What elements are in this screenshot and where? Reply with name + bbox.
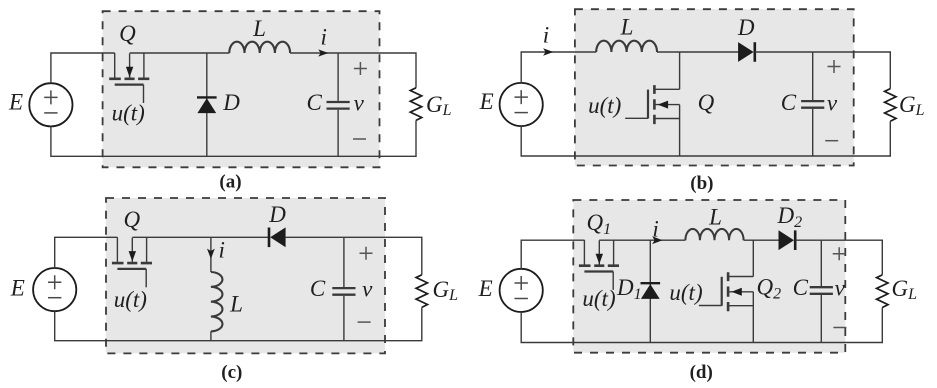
voltage source E (a) [29, 83, 72, 126]
wire D to C junction (c) [286, 236, 344, 238]
svg-text:L: L [229, 292, 243, 317]
wire L to D2 (d) [744, 239, 779, 241]
minus sign (a) [353, 138, 366, 140]
svg-text:v: v [827, 91, 838, 116]
wire D to C junction (b) [755, 51, 813, 53]
wire E top to L (b) [521, 52, 596, 83]
svg-text:u(t): u(t) [112, 101, 145, 126]
svg-text:C: C [307, 90, 323, 115]
resistor GL (b) [885, 89, 896, 122]
wire L to C junction (a) [290, 52, 338, 54]
minus sign (b) [825, 140, 838, 142]
diode D pointing left (c) [268, 228, 271, 248]
svg-text:E: E [10, 275, 25, 300]
dashed converter box (b) [575, 9, 854, 165]
svg-text:i: i [543, 23, 549, 48]
plus sign (c) [360, 247, 373, 260]
current arrow i (a) [318, 49, 328, 56]
svg-text:(d): (d) [690, 362, 713, 383]
svg-text:v: v [835, 276, 846, 301]
transistor Q mosfet (c) [112, 237, 152, 287]
current arrow i (b) [543, 48, 553, 55]
current arrow i wire (c) [210, 237, 212, 272]
svg-text:D: D [222, 90, 240, 115]
resistor GL (a) [410, 88, 421, 121]
plus sign (b) [828, 60, 841, 73]
svg-text:D: D [737, 15, 755, 40]
svg-text:C: C [310, 276, 326, 301]
transistor Q2 mosfet (d) [752, 240, 754, 276]
voltage source E (b) [500, 83, 543, 126]
diode D2 (d) [779, 230, 796, 250]
inductor L (a) [229, 42, 290, 53]
svg-text:C: C [781, 90, 797, 115]
capacitor C (c) [343, 237, 345, 340]
svg-text:L: L [620, 15, 634, 40]
transistor Q mosfet (b) [679, 52, 681, 89]
wire top rail Q to L (a) [130, 52, 230, 54]
capacitor C (b) [812, 52, 814, 156]
minus sign (d) [833, 327, 846, 329]
wire load bottom (b) [521, 121, 890, 156]
plus sign (a) [354, 62, 367, 75]
wire L to D (b) [657, 51, 739, 53]
wire E top to Q drain (c) [55, 237, 118, 268]
inductor L (b) [596, 41, 657, 52]
svg-text:D: D [268, 202, 286, 227]
diode D (a) [206, 53, 208, 156]
svg-text:u(t): u(t) [582, 286, 615, 311]
wire load bottom (c) [55, 307, 422, 340]
svg-text:L: L [252, 16, 266, 41]
wire load bottom (d) [521, 308, 882, 343]
svg-text:(b): (b) [690, 173, 713, 194]
capacitor C (a) [337, 53, 339, 156]
inductor L (c) [211, 272, 223, 331]
wire C to load corner (a) [338, 53, 416, 88]
svg-text:i: i [321, 25, 327, 50]
dashed converter box (a) [103, 11, 380, 167]
wire D2 to C junction (d) [795, 239, 821, 241]
svg-text:L: L [708, 205, 722, 230]
voltage source E (d) [500, 269, 543, 312]
svg-text:u(t): u(t) [669, 280, 702, 305]
svg-text:(c): (c) [221, 362, 242, 383]
diode D (b) [738, 42, 755, 62]
svg-text:Q: Q [123, 207, 140, 232]
plus sign (d) [833, 247, 846, 260]
wire load bottom (a) [51, 120, 416, 156]
inductor L (d) [685, 229, 743, 240]
svg-text:Q: Q [698, 90, 715, 115]
resistor GL (d) [877, 275, 888, 308]
svg-text:i: i [652, 217, 658, 242]
wire E top to Q1 drain (d) [521, 240, 584, 269]
wire C to load corner (b) [813, 52, 891, 89]
wire top rail Q to D (c) [132, 236, 268, 238]
wire E top to Q drain (a) [51, 53, 115, 83]
svg-text:Q: Q [119, 21, 136, 46]
capacitor C (d) [820, 240, 822, 342]
svg-text:E: E [8, 90, 23, 115]
svg-text:(a): (a) [219, 172, 241, 193]
wire top rail Q1 to L (d) [599, 239, 685, 241]
svg-text:E: E [478, 276, 493, 301]
dashed converter box (c) [106, 198, 385, 353]
transistor Q1 mosfet (d) [579, 240, 619, 290]
voltage source E (c) [33, 268, 76, 311]
svg-text:u(t): u(t) [114, 287, 147, 312]
svg-text:u(t): u(t) [588, 93, 621, 118]
transistor Q1 mosfet (a) [109, 53, 149, 103]
wire C to load corner (c) [344, 237, 422, 274]
svg-text:v: v [354, 91, 365, 116]
diode D1 (d) [649, 240, 651, 342]
current arrow i (d) [652, 236, 662, 244]
wire C to load corner (d) [821, 240, 882, 275]
resistor GL (c) [416, 275, 427, 308]
minus sign (c) [358, 321, 371, 323]
svg-text:E: E [479, 89, 494, 114]
svg-text:v: v [362, 277, 373, 302]
svg-text:i: i [219, 238, 225, 263]
dashed converter box (d) [573, 200, 845, 353]
svg-text:C: C [793, 275, 809, 300]
